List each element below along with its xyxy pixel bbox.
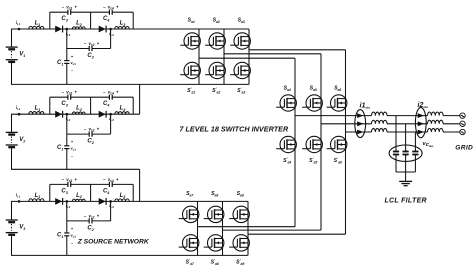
- capacitor C4 cell 1: [108, 10, 110, 15]
- wire: C1 vertical cell 3: [66, 201, 68, 233]
- current sensor i2 ellipse: [415, 107, 426, 137]
- diode D2 cell 2: [99, 111, 106, 118]
- inductor L3 cell 2: [115, 112, 129, 115]
- grid terminal phase 1: [460, 113, 465, 118]
- wire: top branch middle drop cell 1: [90, 12, 92, 29]
- node C cell 1 (i_L3): [109, 28, 112, 31]
- transistor S'a7: [179, 235, 199, 251]
- transistor Sa7: [179, 206, 199, 222]
- wire: top branch right drop cell 2: [132, 97, 134, 114]
- svg-text:+: +: [71, 54, 74, 59]
- filter capacitor 2: [403, 151, 409, 153]
- wire: group2 leg 1 (cascade vertical): [294, 58, 296, 227]
- capacitor C1 cell 3: [64, 232, 69, 234]
- capacitor C2 cell 1: [88, 46, 90, 51]
- wire: C2 branch right riser cell 2: [110, 114, 112, 134]
- capacitor C3 cell 2: [67, 95, 69, 100]
- wire: capacitor tap 2: [405, 124, 407, 152]
- wire: group1 leg 2 phase exit to middle stage: [224, 53, 321, 55]
- svg-text:C4: C4: [103, 101, 110, 107]
- wire: phase 2 to grid terminal: [443, 123, 460, 125]
- wire: capacitor tap 3: [414, 132, 416, 152]
- wire: top capacitor branch cell 1: [50, 11, 68, 13]
- node A cell 3 (i_L2): [66, 200, 69, 203]
- wire: phase 1 between filter inductors: [387, 115, 428, 117]
- svg-text:iL3: iL3: [109, 203, 114, 209]
- svg-text:S′a9: S′a9: [236, 258, 244, 266]
- svg-text:Sa7: Sa7: [186, 191, 194, 198]
- diode D1 cell 2: [55, 111, 62, 118]
- wire: phase line 3 to LCL filter: [346, 131, 372, 133]
- Z-source cell 1: left battery wire: [11, 29, 13, 47]
- inductor Li phase 2: [372, 120, 388, 124]
- i2 phase arrow: [418, 130, 424, 135]
- wire: capacitor common bus: [396, 171, 415, 173]
- wire: phase line 2 to LCL filter: [321, 123, 372, 125]
- svg-text:L1: L1: [35, 106, 41, 112]
- node i_L1 cell 1: [18, 28, 21, 31]
- svg-text:vc1: vc1: [71, 146, 77, 151]
- node i_L1 cell 2: [18, 113, 21, 116]
- svg-text:S′a6: S′a6: [334, 157, 342, 165]
- svg-text:L1: L1: [35, 193, 41, 199]
- i1 phase arrow: [357, 121, 363, 126]
- svg-text:iL1: iL1: [16, 105, 21, 111]
- node A cell 2 (i_L2): [66, 113, 69, 116]
- capacitor C4 cell 2: [108, 95, 110, 100]
- svg-text:–vc4+: –vc4+: [103, 90, 119, 96]
- battery V3: [6, 220, 18, 235]
- svg-text:i1abc: i1abc: [360, 103, 371, 110]
- inductor Lg phase 2: [428, 120, 444, 124]
- svg-text:S′a3: S′a3: [237, 87, 245, 95]
- svg-text:–: –: [71, 68, 74, 73]
- svg-text:C4: C4: [103, 16, 110, 22]
- transistor Sa5: [302, 95, 322, 111]
- wire: phase 3 to grid terminal: [443, 131, 460, 133]
- svg-text:S′a7: S′a7: [186, 258, 195, 266]
- i1 phase arrow: [357, 113, 363, 118]
- wire: C2 branch cell 2: [67, 133, 89, 135]
- svg-text:C3: C3: [61, 188, 68, 194]
- filter capacitor 3: [412, 151, 418, 153]
- svg-text:C1: C1: [57, 60, 63, 66]
- svg-text:L2: L2: [76, 106, 83, 112]
- wire: cell 2 output rail: [11, 113, 140, 115]
- ground: [399, 181, 412, 185]
- svg-text:iL3: iL3: [109, 116, 114, 122]
- svg-text:Sa1: Sa1: [188, 18, 195, 25]
- svg-text:GRID: GRID: [455, 145, 473, 152]
- svg-text:S′a1: S′a1: [187, 87, 195, 95]
- transistor Sa2: [205, 33, 225, 49]
- transistor S'a4: [276, 136, 296, 152]
- svg-text:–: –: [71, 153, 74, 158]
- wire: group1 leg 1 phase exit to middle stage: [199, 57, 295, 59]
- transistor Sa9: [229, 206, 249, 222]
- svg-text:iL1: iL1: [16, 20, 21, 26]
- capacitor C3 cell 3: [67, 182, 69, 187]
- wire: C1 vertical cell 2: [66, 114, 68, 146]
- svg-text:–: –: [71, 240, 74, 245]
- svg-text:C3: C3: [61, 16, 68, 22]
- inductor Li phase 1: [372, 112, 388, 116]
- svg-text:Sa6: Sa6: [334, 86, 341, 93]
- capacitor C2 cell 3: [88, 218, 90, 223]
- wire: cell 3 / group 3 bottom rail: [11, 254, 248, 256]
- svg-text:L3: L3: [120, 106, 127, 112]
- svg-text:7 LEVEL 18 SWITCH INVERTER: 7 LEVEL 18 SWITCH INVERTER: [179, 124, 289, 133]
- battery V1: [6, 47, 18, 62]
- wire: C2 branch cell 3: [67, 220, 89, 222]
- diode D2 cell 3: [99, 198, 106, 205]
- capacitor C3 cell 1: [67, 10, 69, 15]
- svg-text:Sa2: Sa2: [213, 18, 220, 25]
- wire: group3 leg 2 phase exit to middle stage: [223, 229, 322, 231]
- svg-text:L3: L3: [120, 193, 127, 199]
- i1 phase arrow: [357, 130, 363, 135]
- svg-text:C4: C4: [103, 188, 110, 194]
- inductor L2 cell 3: [72, 199, 85, 201]
- node C cell 3 (i_L3): [109, 200, 112, 203]
- node C cell 2 (i_L3): [109, 113, 112, 116]
- grid terminal phase 3: [460, 129, 465, 134]
- battery V2: [6, 132, 18, 147]
- svg-text:–vc2+: –vc2+: [84, 41, 100, 47]
- wire: C2 branch right riser cell 3: [110, 201, 112, 221]
- wire: top branch left drop cell 3: [49, 184, 51, 201]
- svg-text:C1: C1: [57, 232, 63, 238]
- svg-text:V3: V3: [19, 225, 25, 231]
- wire: phase 3 between filter inductors: [387, 131, 428, 133]
- wire: group3 leg 3: [247, 201, 249, 255]
- transistor S'a9: [229, 235, 249, 251]
- transistor Sa1: [180, 33, 200, 49]
- svg-text:C2: C2: [87, 53, 94, 59]
- diode D2 cell 1: [99, 26, 106, 33]
- wire: C2 branch cell 1: [67, 48, 89, 50]
- wire: group3 leg 1: [197, 201, 199, 255]
- transistor Sa8: [204, 206, 224, 222]
- svg-text:Sa5: Sa5: [310, 86, 317, 93]
- wire: C2 branch right riser cell 1: [110, 29, 112, 49]
- inductor L1 cell 1: [29, 26, 44, 29]
- svg-text:L1: L1: [35, 20, 41, 26]
- inductor L2 cell 2: [72, 112, 85, 114]
- wire: top branch right drop cell 3: [132, 184, 134, 201]
- inductor L2 cell 1: [72, 27, 85, 29]
- grid terminal phase 2: [460, 121, 465, 126]
- svg-text:–vc3+: –vc3+: [62, 5, 78, 11]
- filter capacitor bank ellipse: [389, 145, 422, 161]
- svg-text:C3: C3: [61, 101, 68, 107]
- wire: phase line 1 to LCL filter: [295, 115, 372, 117]
- svg-text:iL3: iL3: [109, 31, 114, 37]
- wire: cell 1 / group 1 bottom rail: [11, 83, 249, 85]
- filter capacitor 1: [393, 151, 399, 153]
- svg-text:–vc3+: –vc3+: [62, 177, 78, 183]
- svg-text:C2: C2: [87, 139, 94, 145]
- current sensor i1 ellipse: [355, 110, 366, 138]
- svg-text:Sa3: Sa3: [238, 18, 245, 25]
- i2 phase arrow: [418, 113, 424, 118]
- Z-source cell 3: left battery wire: [11, 201, 13, 220]
- wire: top capacitor branch cell 2: [50, 96, 68, 98]
- svg-text:+: +: [71, 226, 74, 231]
- diode D1 cell 3: [55, 198, 62, 205]
- wire: group3 leg 1 phase exit to middle stage: [198, 226, 296, 228]
- svg-text:Sa9: Sa9: [237, 191, 244, 198]
- svg-text:S′a8: S′a8: [211, 258, 219, 266]
- wire: group1 leg 3 phase exit to middle stage: [249, 49, 346, 51]
- transistor Sa3: [230, 33, 250, 49]
- svg-text:S′a2: S′a2: [212, 87, 220, 95]
- svg-text:–vc3+: –vc3+: [62, 90, 78, 96]
- inductor Lg phase 1: [428, 112, 444, 116]
- wire: group1 leg 2: [223, 29, 225, 84]
- transistor S'a6: [327, 136, 347, 152]
- svg-text:Sa8: Sa8: [211, 191, 218, 198]
- wire: group1 leg 1: [198, 29, 200, 84]
- svg-text:V1: V1: [19, 52, 25, 58]
- wire: cell 2 output rises to cell1/group1 negative rail: [139, 84, 141, 114]
- wire: top capacitor branch cell 3: [50, 183, 68, 185]
- capacitor C1 cell 2: [64, 145, 69, 147]
- svg-text:–vc4+: –vc4+: [103, 5, 119, 11]
- diode D1 cell 1: [55, 26, 62, 33]
- capacitor C4 cell 3: [108, 182, 110, 187]
- svg-text:V2: V2: [19, 137, 25, 143]
- svg-text:iL1: iL1: [16, 192, 21, 198]
- svg-text:S′a5: S′a5: [309, 157, 317, 165]
- wire: top branch middle drop cell 2: [90, 97, 92, 114]
- capacitor C2 cell 2: [88, 132, 90, 137]
- wire: top branch right drop cell 1: [132, 12, 134, 29]
- inductor L1 cell 2: [29, 112, 44, 115]
- wire: ground stem: [405, 172, 407, 181]
- capacitor C1 cell 1: [64, 60, 69, 62]
- wire: cell 1 main rail to inverter top rail: [11, 28, 249, 30]
- wire: phase 1 to grid terminal: [443, 115, 460, 117]
- wire: top branch left drop cell 2: [49, 97, 51, 114]
- wire: cell 2 bottom drops to cell 3 output rail: [139, 169, 141, 201]
- svg-text:Z SOURCE NETWORK: Z SOURCE NETWORK: [77, 239, 150, 246]
- wire: group2 leg 2 (cascade vertical): [320, 54, 322, 230]
- svg-text:L3: L3: [120, 20, 127, 26]
- svg-text:L2: L2: [76, 193, 83, 199]
- wire: group3 leg 2: [222, 201, 224, 255]
- inductor Lg phase 3: [428, 128, 444, 132]
- node A cell 1 (i_L2): [66, 28, 69, 31]
- wire: phase 2 between filter inductors: [387, 123, 428, 125]
- wire: group3 leg 3 phase exit to middle stage: [248, 233, 346, 235]
- svg-text:vcabc: vcabc: [423, 141, 434, 148]
- wire: top branch middle drop cell 3: [90, 184, 92, 201]
- transistor S'a1: [180, 62, 200, 78]
- wire: group1 leg 3: [248, 29, 250, 84]
- svg-text:–vc2+: –vc2+: [84, 213, 100, 219]
- inductor L1 cell 3: [29, 199, 44, 202]
- svg-text:C1: C1: [57, 145, 63, 151]
- wire: group2 leg 3 (cascade vertical): [345, 50, 347, 234]
- svg-text:C2: C2: [87, 226, 94, 232]
- svg-text:+: +: [71, 139, 74, 144]
- svg-text:i2abc: i2abc: [418, 102, 429, 109]
- wire: cell 3 output rail to inverter group 3 top rail: [11, 200, 248, 202]
- transistor S'a2: [205, 62, 225, 78]
- wire: C1 vertical cell 1: [66, 29, 68, 61]
- transistor Sa6: [327, 95, 347, 111]
- svg-text:vc1: vc1: [71, 234, 77, 239]
- svg-text:vc1: vc1: [71, 61, 77, 66]
- svg-text:LCL FILTER: LCL FILTER: [384, 197, 426, 204]
- inductor L3 cell 3: [115, 199, 129, 202]
- node i_L1 cell 3: [18, 200, 21, 203]
- inductor Li phase 3: [372, 128, 388, 132]
- transistor S'a3: [230, 62, 250, 78]
- svg-text:Sa4: Sa4: [284, 86, 291, 93]
- i2 phase arrow: [418, 121, 424, 126]
- svg-text:S′a4: S′a4: [283, 157, 291, 165]
- transistor Sa4: [276, 95, 296, 111]
- inductor L3 cell 1: [115, 26, 129, 29]
- svg-text:L2: L2: [76, 20, 83, 26]
- transistor S'a8: [204, 235, 224, 251]
- Z-source cell 2: left battery wire: [11, 114, 13, 132]
- transistor S'a5: [302, 136, 322, 152]
- svg-text:–vc2+: –vc2+: [84, 127, 100, 133]
- svg-text:–vc4+: –vc4+: [103, 177, 119, 183]
- wire: top branch left drop cell 1: [49, 12, 51, 29]
- wire: cell 2 bottom rail: [11, 168, 140, 170]
- wire: capacitor tap 1: [395, 116, 397, 152]
